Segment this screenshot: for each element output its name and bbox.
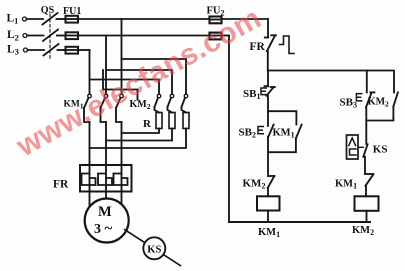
wire to KM2 coil — [365, 186, 367, 197]
coil KM2 — [355, 196, 379, 211]
wire L1 to QS — [27, 18, 44, 20]
svg-text:KM1: KM1 — [273, 128, 295, 140]
wire KM2 aux rejoin — [366, 106, 393, 120]
contactor KM1 main pole 3 — [116, 94, 123, 122]
thermal contact FR NC — [265, 35, 294, 53]
wire resistor2 to column2 crossover — [106, 129, 172, 141]
wire parallel branch top — [268, 111, 296, 124]
pushbutton SB3 NO — [356, 92, 374, 107]
svg-text:FR: FR — [53, 179, 69, 191]
node L3 terminal — [24, 48, 28, 52]
thermal relay FR heater 2 — [98, 165, 112, 192]
fuse FU1 pole1 — [66, 16, 79, 23]
wire branch junction to SB1 — [267, 71, 269, 87]
contactor KM2 main pole 2 — [168, 94, 174, 112]
wire drop L3 phase column — [89, 50, 91, 94]
contactor KM1 main pole 1 — [84, 94, 91, 122]
svg-text:KM2: KM2 — [352, 225, 374, 237]
svg-text:KS: KS — [373, 143, 388, 155]
thermal relay FR heater 1 — [82, 165, 96, 192]
svg-text:KM2: KM2 — [368, 96, 389, 108]
wire SB1 to SB2 junction — [267, 96, 269, 126]
wire SB3 to KS — [365, 107, 367, 144]
wire control left rail top — [267, 19, 269, 38]
svg-text:L1: L1 — [7, 12, 19, 25]
svg-text:SB3: SB3 — [340, 96, 357, 109]
wire FR to motor 1 — [89, 192, 91, 207]
switch QS pole 2 — [43, 30, 58, 42]
wire branch L2 to KM2 col2 — [106, 70, 172, 94]
svg-text:KM1: KM1 — [335, 178, 357, 190]
wire L1 row FU1 to FU2 — [78, 18, 209, 20]
svg-text:L3: L3 — [7, 43, 19, 56]
contact KM2 interlock NC — [268, 176, 275, 188]
node L1 terminal — [23, 17, 27, 21]
svg-text:KM1: KM1 — [258, 227, 280, 239]
contact KM1 aux NO — [296, 125, 302, 139]
resistor R phase 3 — [183, 113, 189, 129]
wire drop L2 phase column — [105, 36, 107, 95]
resistor R phase 1 — [156, 113, 162, 129]
shaft line motor to KS — [125, 230, 181, 266]
wire FR to motor 2 — [105, 192, 107, 199]
wire L2 to QS — [27, 35, 44, 37]
motor M — [85, 199, 129, 243]
wire branch L3 to KM2 col1 — [90, 80, 160, 95]
wire L2 row FU2 to return rail corner — [222, 35, 229, 37]
svg-text:L2: L2 — [7, 29, 19, 42]
wire L3 row FU1 to corner — [78, 49, 90, 51]
wire branch L1 to KM2 col3 — [122, 59, 187, 94]
svg-text:KS: KS — [147, 244, 161, 255]
svg-text:FU1: FU1 — [63, 6, 81, 17]
wire resistor3 to column1 crossover — [90, 129, 187, 149]
wire L3 to QS — [28, 49, 45, 51]
speed switch KS contact — [347, 135, 368, 159]
wire KM2 coil to rail — [366, 211, 368, 222]
fuse FU1 pole3 — [66, 47, 79, 54]
wire SB2 to KM2 interlock — [267, 137, 269, 176]
wire KM1 coil to rail — [267, 211, 269, 223]
svg-text:QS: QS — [41, 5, 55, 16]
wire L2 row FU1 to FU2 — [78, 35, 209, 37]
switch QS linkage — [49, 14, 51, 60]
wire drop L1 phase column — [121, 19, 123, 94]
svg-text:KM2: KM2 — [243, 177, 266, 190]
fuse FU2 pole2 — [210, 33, 222, 40]
wire resistor1 to column3 crossover — [122, 129, 160, 134]
svg-text:SB2: SB2 — [239, 127, 256, 140]
wire FR contact to branch junction — [267, 51, 269, 70]
switch QS pole 1 — [43, 13, 58, 25]
wire motor column 3 — [121, 122, 123, 165]
wire QS to FU1 pole3 — [58, 49, 66, 51]
wire to KM1 coil — [267, 188, 269, 197]
svg-text:R: R — [143, 118, 152, 130]
wire stub to KM2 label — [103, 70, 138, 100]
contactor KM1 main pole 2 — [101, 94, 108, 122]
switch QS pole 3 — [44, 44, 59, 56]
wire KM1 aux bottom rejoin — [268, 138, 296, 152]
wire KS to KM1 interlock — [364, 157, 366, 174]
contact KM1 interlock NC — [366, 174, 374, 186]
wire SB3 drop — [366, 71, 368, 93]
fuse FU1 pole2 — [66, 32, 79, 39]
speed relay KS body — [143, 237, 165, 259]
svg-text:3 ~: 3 ~ — [94, 221, 113, 237]
wire bottom rail — [229, 221, 370, 223]
pushbutton SB1 NC — [261, 86, 275, 96]
wire QS to FU1 pole2 — [57, 35, 66, 37]
pushbutton SB2 NO — [258, 125, 274, 137]
svg-text:FU2: FU2 — [207, 5, 225, 17]
resistor R phase 2 — [169, 113, 175, 129]
svg-text:M: M — [98, 204, 112, 220]
wire motor column 1 — [89, 122, 91, 165]
svg-text:SB1: SB1 — [243, 88, 260, 101]
wire motor column 2 — [105, 122, 107, 165]
node L2 terminal — [23, 34, 27, 38]
contactor KM2 main pole 1 — [155, 94, 161, 112]
wire right branch top — [268, 71, 394, 93]
wire L1 row FU2 to control corner — [222, 18, 268, 20]
svg-text:FR: FR — [250, 41, 266, 53]
thermal relay FR heater 3 — [114, 165, 128, 192]
coil KM1 — [257, 196, 280, 210]
wire QS to FU1 pole1 — [57, 18, 66, 20]
contactor KM2 main pole 3 — [182, 94, 188, 112]
contact KM2 aux NO — [393, 92, 398, 106]
fuse FU2 pole1 — [210, 17, 222, 24]
wire control return rail — [228, 36, 230, 223]
wire FR to motor 3 — [121, 192, 123, 205]
thermal relay FR box — [80, 165, 132, 192]
